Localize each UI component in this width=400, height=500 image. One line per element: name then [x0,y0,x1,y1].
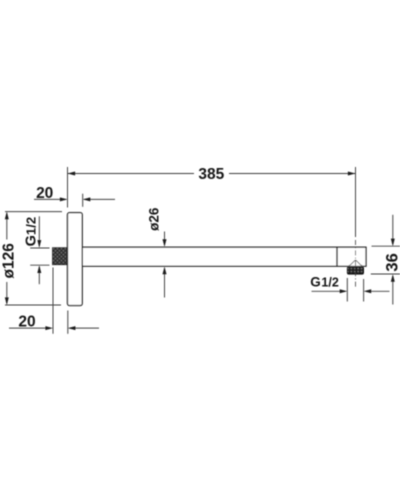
svg-text:ø126: ø126 [0,243,17,279]
svg-text:G1/2: G1/2 [23,217,39,247]
svg-text:G1/2: G1/2 [310,274,339,289]
svg-text:ø26: ø26 [146,207,161,231]
svg-text:36: 36 [384,253,400,271]
svg-text:20: 20 [18,313,35,330]
svg-text:20: 20 [36,185,53,202]
svg-text:385: 385 [198,166,224,183]
